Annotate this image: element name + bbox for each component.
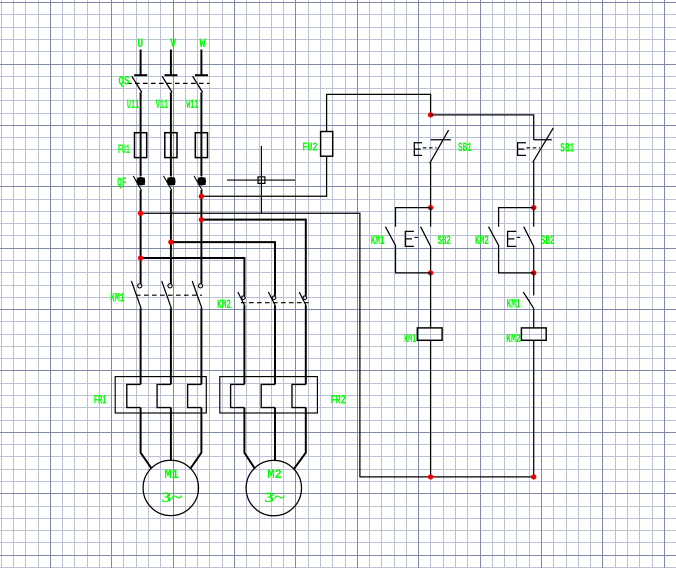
label M1 xyxy=(164,467,179,482)
wire W QS to QF xyxy=(200,92,202,176)
junction KM2 coil on bottom bus xyxy=(531,474,536,479)
junction U phase to KM2 feed xyxy=(138,255,143,260)
junction node B xyxy=(531,205,536,210)
start pushbutton SB2 actuator xyxy=(405,231,419,246)
contactor KM1 main contact pole V xyxy=(162,281,172,309)
stop pushbutton SB1 fixed contact bar xyxy=(431,139,451,141)
svg-text:KM2: KM2 xyxy=(506,332,521,346)
label SB1 (station 2) xyxy=(560,141,574,155)
junction node D xyxy=(531,270,536,275)
disconnect switch QS pole V fixed contact xyxy=(165,74,178,76)
svg-text:FR2: FR2 xyxy=(331,394,346,408)
wire U FR1 to M1 xyxy=(141,408,152,469)
label V11 xyxy=(156,98,168,112)
label QS xyxy=(119,75,130,89)
contactor KM1 auxiliary hold-in contact xyxy=(385,227,395,246)
contactor KM2 main contact pole V xyxy=(268,292,275,305)
disconnect switch QS pole W fixed contact xyxy=(195,74,208,76)
thermal relay FR2 enclosure xyxy=(220,377,318,413)
svg-text:3~: 3~ xyxy=(162,490,183,506)
wire node A to SB2 xyxy=(430,208,432,227)
svg-text:3~: 3~ xyxy=(264,490,285,506)
label M2 xyxy=(267,467,282,482)
stop pushbutton SB1' fixed contact bar xyxy=(534,139,552,141)
wire FR2 pole 1 to M2 xyxy=(244,408,255,469)
disconnect switch QS mechanical link (dashed) xyxy=(127,82,209,84)
thermal relay FR2 heater pole U xyxy=(231,384,245,407)
junction V phase to KM2 feed xyxy=(168,239,173,244)
motor M2 (3-phase) xyxy=(246,460,301,515)
disconnect switch QS pole U blade xyxy=(132,76,142,92)
svg-text:SB1: SB1 xyxy=(458,141,472,155)
stop pushbutton SB1 actuator xyxy=(414,143,436,156)
start pushbutton SB2' actuator xyxy=(508,231,522,246)
wire W to KM2 pole 3 feed xyxy=(201,220,305,296)
thermal relay FR2 heater pole W xyxy=(292,384,306,407)
label KM2 (aux contact) xyxy=(475,234,489,248)
thermal relay FR1 enclosure xyxy=(115,377,206,413)
junction KM1 coil on bottom bus xyxy=(428,474,433,479)
wire KM2 aux branch to node D xyxy=(499,246,534,273)
svg-text:U11: U11 xyxy=(127,98,139,112)
start pushbutton SB2 blade xyxy=(421,227,431,246)
label SB1 (station 1) xyxy=(458,141,472,155)
wire U to KM2 pole 1 feed xyxy=(141,258,245,296)
svg-text:V: V xyxy=(170,36,176,51)
wire V QS to QF xyxy=(170,92,172,176)
node V (phase supply) xyxy=(170,36,176,51)
wire node B to SB2' xyxy=(533,208,535,227)
svg-text:FR1: FR1 xyxy=(94,394,107,408)
label SB2 (station 2) xyxy=(541,234,555,248)
contactor KM2 auxiliary hold-in contact xyxy=(489,227,499,246)
circuit breaker QF pole U xyxy=(133,176,145,191)
wire W phase to fuse FU2 xyxy=(201,156,326,196)
svg-text:KM1: KM1 xyxy=(110,292,124,306)
svg-text:QF: QF xyxy=(117,176,126,190)
stop pushbutton SB1' actuator xyxy=(518,143,540,156)
fuse FU1 pole U xyxy=(135,133,147,158)
wire node C to KM1 coil xyxy=(430,273,432,328)
CAD cursor crosshair xyxy=(227,146,295,213)
wire V to KM2 pole 2 feed xyxy=(171,242,275,296)
wire node D to KM1 interlock xyxy=(533,273,535,296)
wire W supply drop xyxy=(200,50,202,76)
wire KM1 interlock to KM2 coil xyxy=(533,308,535,328)
contactor KM1 main contact pole U xyxy=(131,281,141,309)
svg-text:KM1: KM1 xyxy=(404,332,416,346)
svg-text:KM2: KM2 xyxy=(217,298,231,312)
fuse FU2 xyxy=(321,132,333,157)
wire control return bus (U phase to coils common) xyxy=(141,213,534,477)
thermal relay FR1 heater pole U xyxy=(127,384,141,407)
label 3~ (M1) xyxy=(162,490,183,506)
thermal relay FR1 heater pole W xyxy=(188,384,202,407)
wire KM2 pole V to FR2 xyxy=(274,305,276,384)
label KM2 (coil) xyxy=(506,332,521,346)
wire V FR1 to M1 xyxy=(170,408,172,461)
disconnect switch QS pole W blade xyxy=(193,76,203,92)
wire V KM1 to FR1 xyxy=(170,308,172,384)
disconnect switch QS pole U fixed contact xyxy=(134,74,147,76)
junction U phase to control return xyxy=(138,211,143,216)
stop pushbutton SB1 blade xyxy=(430,130,449,163)
thermal relay FR1 heater pole V xyxy=(157,384,171,407)
label KM1 (main contacts) xyxy=(110,292,124,306)
svg-text:M1: M1 xyxy=(164,467,179,482)
start pushbutton SB2' blade xyxy=(524,227,534,246)
label 3~ (M2) xyxy=(264,490,285,506)
fuse FU1 pole V xyxy=(165,133,177,158)
svg-text:M2: M2 xyxy=(267,467,282,482)
wire W KM1 to FR1 xyxy=(200,308,202,384)
contactor KM2 main contact pole W xyxy=(299,292,306,305)
circuit breaker QF pole V xyxy=(164,176,176,191)
wire W QF to KM1 xyxy=(200,190,202,283)
wire KM2 pole W to FR2 xyxy=(305,305,307,384)
svg-text:SB2: SB2 xyxy=(541,234,555,248)
wire SB2 to node C xyxy=(430,246,432,273)
thermal relay FR2 heater pole V xyxy=(261,384,275,407)
label FU1 xyxy=(118,143,130,157)
wire FR2 pole 2 to M2 xyxy=(274,408,276,461)
junction node C xyxy=(428,270,433,275)
wire U KM1 to FR1 xyxy=(140,308,142,384)
wire FR2 pole 3 to M2 xyxy=(294,408,306,469)
wire node B to KM2 aux branch xyxy=(499,208,534,227)
svg-text:QS: QS xyxy=(119,75,130,89)
contactor KM1 sequence interlock contact (NO) xyxy=(523,292,533,308)
wire FU2 to control rail 1 xyxy=(327,94,431,131)
wire U QS to QF xyxy=(140,92,142,176)
wire KM2 pole U to FR2 xyxy=(243,305,245,384)
svg-text:U: U xyxy=(137,36,143,51)
label KM2 (main contacts) xyxy=(217,298,231,312)
svg-text:FU2: FU2 xyxy=(302,140,317,154)
junction W phase to FU2 xyxy=(199,194,204,199)
label KM1 (aux contact) xyxy=(371,234,385,248)
svg-text:KM1: KM1 xyxy=(371,234,385,248)
label FR2 xyxy=(331,394,346,408)
contactor coil KM1 xyxy=(417,328,442,340)
contactor KM2 mechanical link (dashed) xyxy=(241,302,309,304)
wire node A to KM1 aux branch xyxy=(396,208,431,227)
svg-text:W: W xyxy=(199,36,205,51)
junction node A xyxy=(428,205,433,210)
label W11 xyxy=(186,98,198,112)
label FR1 xyxy=(94,394,107,408)
contactor KM1 mechanical link (dashed) xyxy=(136,294,202,296)
wire KM1 coil to bottom bus xyxy=(430,340,432,477)
wire U QF to KM1 xyxy=(140,190,142,283)
label U11 xyxy=(127,98,139,112)
label SB2 (station 1) xyxy=(438,234,451,248)
motor M1 (3-phase) xyxy=(143,460,198,515)
contactor KM2 main contact pole U xyxy=(238,292,245,305)
node U (phase supply) xyxy=(137,36,143,51)
wire KM1 aux branch to node C xyxy=(396,246,431,273)
wire SB1' to node B xyxy=(533,162,535,208)
label FU2 xyxy=(302,140,317,154)
label QF xyxy=(117,176,126,190)
wire SB2' to node D xyxy=(533,246,535,273)
svg-text:SB1: SB1 xyxy=(560,141,574,155)
svg-text:W11: W11 xyxy=(186,98,198,112)
svg-text:KM2: KM2 xyxy=(475,234,489,248)
stop pushbutton SB1' blade xyxy=(533,128,554,162)
svg-text:KM1: KM1 xyxy=(507,298,521,312)
contactor KM1 main contact pole W xyxy=(192,281,202,309)
circuit breaker QF pole W xyxy=(194,176,206,191)
fuse FU1 pole W xyxy=(195,133,207,158)
wire V supply drop xyxy=(170,50,172,76)
contactor coil KM2 xyxy=(521,328,546,340)
node W (phase supply) xyxy=(199,36,205,51)
wire rail 1 to rail 2 top xyxy=(431,115,534,140)
svg-text:V11: V11 xyxy=(156,98,168,112)
junction node at rail 1 top xyxy=(428,112,433,117)
wire W FR1 to M1 xyxy=(190,408,201,469)
svg-text:SB2: SB2 xyxy=(438,234,451,248)
wire V QF to KM1 xyxy=(170,190,172,283)
junction W phase to KM2 feed xyxy=(199,217,204,222)
svg-text:FU1: FU1 xyxy=(118,143,130,157)
wire SB1 to node A xyxy=(430,163,432,208)
wire U supply drop xyxy=(140,50,142,76)
label KM1 (interlock contact) xyxy=(507,298,521,312)
disconnect switch QS pole V blade xyxy=(162,76,172,92)
wire KM2 coil to bottom bus xyxy=(533,340,535,477)
label KM1 (coil) xyxy=(404,332,416,346)
